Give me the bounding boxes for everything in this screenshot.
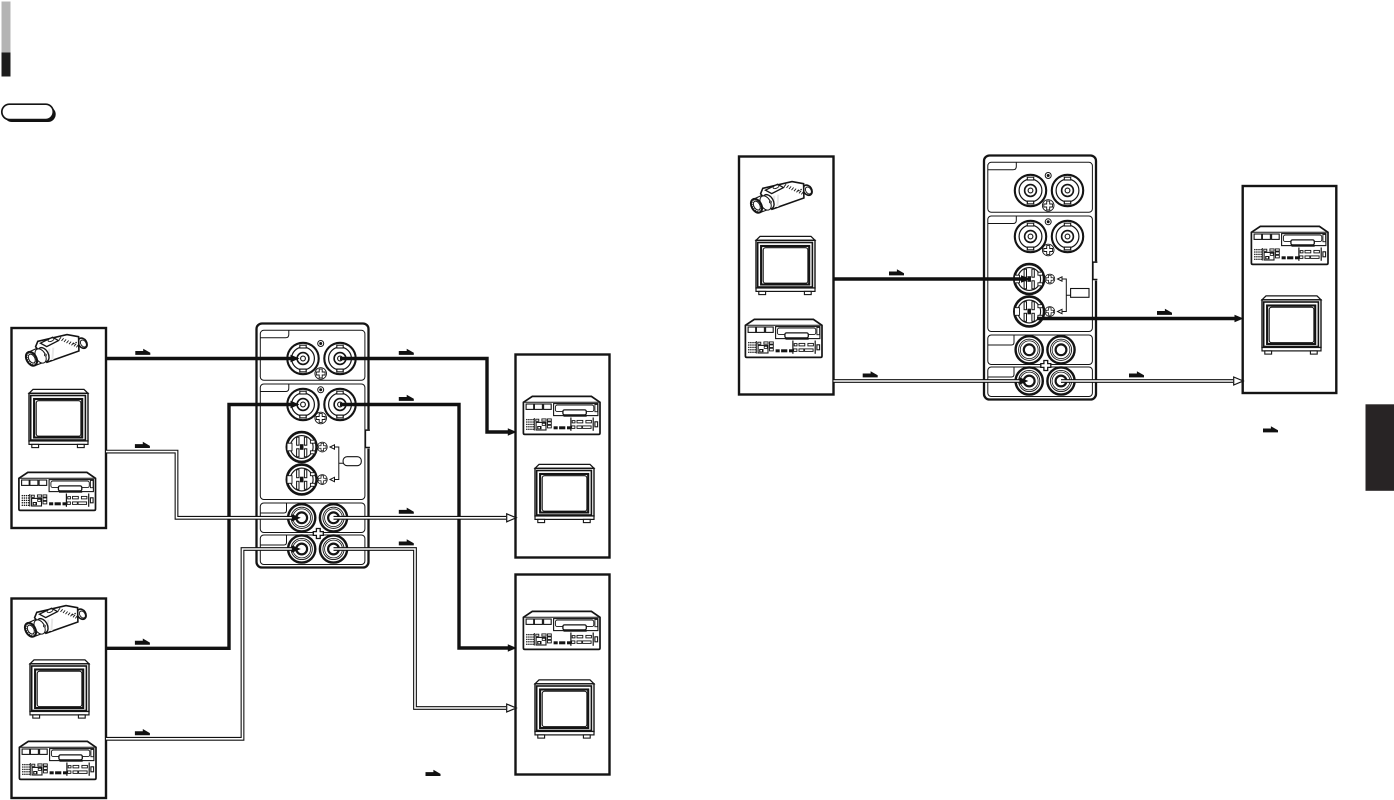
signal direction marker B	[399, 349, 414, 355]
page edge gray index bar	[2, 2, 11, 53]
wire BNC video out 2 to VCR 4	[340, 405, 509, 649]
signal direction marker H	[399, 539, 414, 545]
AV selector rear panel (left diagram)	[257, 324, 372, 568]
monitor icon 6	[1262, 296, 1321, 354]
signal direction marker R3	[863, 371, 878, 377]
wire monitor1 to audio in L	[106, 452, 295, 518]
signal direction marker R1	[889, 269, 904, 275]
signal direction marker caption bottom	[426, 770, 441, 776]
signal direction marker C	[135, 639, 150, 645]
wire monitor5 to S-video in	[834, 277, 1022, 280]
signal direction marker E	[135, 442, 150, 448]
wire camera2 to BNC video in 2	[106, 405, 292, 649]
camera icon 1	[24, 335, 89, 368]
VCR icon 5	[745, 319, 822, 357]
S-video select label box (right panel)	[1071, 289, 1089, 298]
wire audio out L to monitor 3	[334, 516, 507, 520]
wire audio out R to monitor 4	[334, 549, 507, 708]
heading pill badge shadow	[4, 107, 56, 122]
wire VCR5 to audio in (right diagram)	[834, 379, 1022, 383]
wire BNC video out 1 to VCR 3	[340, 359, 509, 433]
monitor icon 5	[756, 236, 815, 294]
S-video select label box (left panel)	[343, 457, 361, 466]
signal direction marker G	[135, 729, 150, 735]
output devices box bottom-right	[516, 575, 610, 775]
right page edge black section tab	[1366, 404, 1394, 491]
signal direction marker caption right	[1263, 426, 1278, 432]
source devices box 1	[12, 328, 107, 528]
heading pill badge	[2, 104, 54, 119]
camera icon 5	[749, 182, 814, 215]
signal direction marker A	[135, 349, 150, 355]
VCR icon 1	[19, 472, 96, 510]
signal direction marker F	[399, 508, 414, 514]
monitor icon 4	[535, 680, 594, 738]
signal direction marker R2	[1157, 309, 1172, 315]
VCR icon 3	[523, 396, 600, 434]
VCR icon 6	[1251, 226, 1328, 264]
output devices box top-right	[516, 355, 610, 558]
wire VCR2 to audio in R	[106, 549, 295, 739]
AV selector rear panel (right diagram)	[984, 156, 1099, 400]
page edge black index bar	[2, 53, 11, 77]
source devices box 2	[12, 599, 107, 799]
monitor icon 2	[30, 660, 89, 718]
monitor icon 3	[535, 464, 594, 522]
VCR icon 4	[523, 611, 600, 649]
wire audio out to monitor 6 (right diagram)	[1061, 379, 1233, 383]
wire camera1 to BNC video in 1	[106, 357, 292, 360]
output devices box (right diagram)	[1243, 186, 1337, 393]
wire S-video out to VCR 6	[1037, 317, 1235, 320]
VCR icon 2	[19, 741, 96, 779]
signal direction marker D	[399, 395, 414, 401]
source devices box (right diagram)	[739, 157, 834, 395]
monitor icon 1	[29, 389, 88, 447]
camera icon 2	[23, 606, 88, 639]
signal direction marker R4	[1129, 371, 1144, 377]
